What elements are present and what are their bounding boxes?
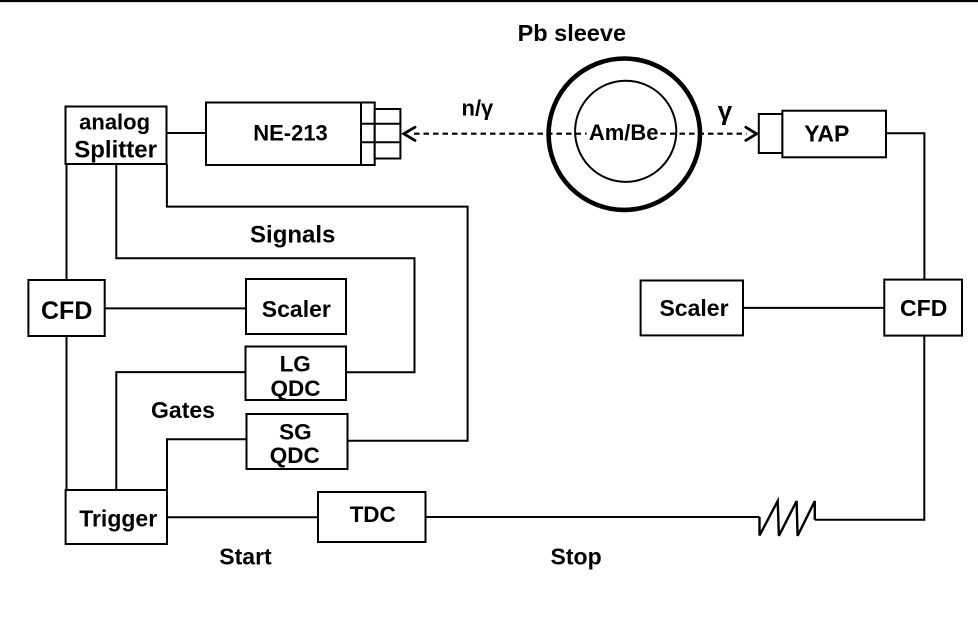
- svg-text:Scaler: Scaler: [659, 295, 728, 321]
- svg-text:Scaler: Scaler: [262, 296, 331, 322]
- svg-text:TDC: TDC: [350, 502, 396, 527]
- svg-text:CFD: CFD: [41, 297, 92, 325]
- svg-text:Start: Start: [219, 544, 272, 570]
- svg-text:YAP: YAP: [804, 121, 849, 147]
- svg-text:Trigger: Trigger: [79, 505, 157, 531]
- svg-text:Signals: Signals: [250, 222, 335, 249]
- svg-text:Am/Be: Am/Be: [589, 120, 659, 145]
- svg-text:SG: SG: [279, 420, 312, 445]
- svg-text:QDC: QDC: [271, 376, 321, 401]
- svg-text:γ: γ: [718, 95, 733, 125]
- svg-text:Splitter: Splitter: [74, 136, 157, 163]
- svg-text:n/γ: n/γ: [462, 96, 495, 121]
- svg-text:QDC: QDC: [270, 443, 320, 468]
- svg-text:NE-213: NE-213: [253, 121, 328, 146]
- svg-text:CFD: CFD: [900, 295, 947, 321]
- svg-text:Pb sleeve: Pb sleeve: [518, 20, 626, 46]
- svg-text:Stop: Stop: [551, 544, 602, 570]
- svg-text:analog: analog: [79, 109, 150, 134]
- svg-text:Gates: Gates: [151, 397, 215, 423]
- svg-text:LG: LG: [280, 352, 311, 377]
